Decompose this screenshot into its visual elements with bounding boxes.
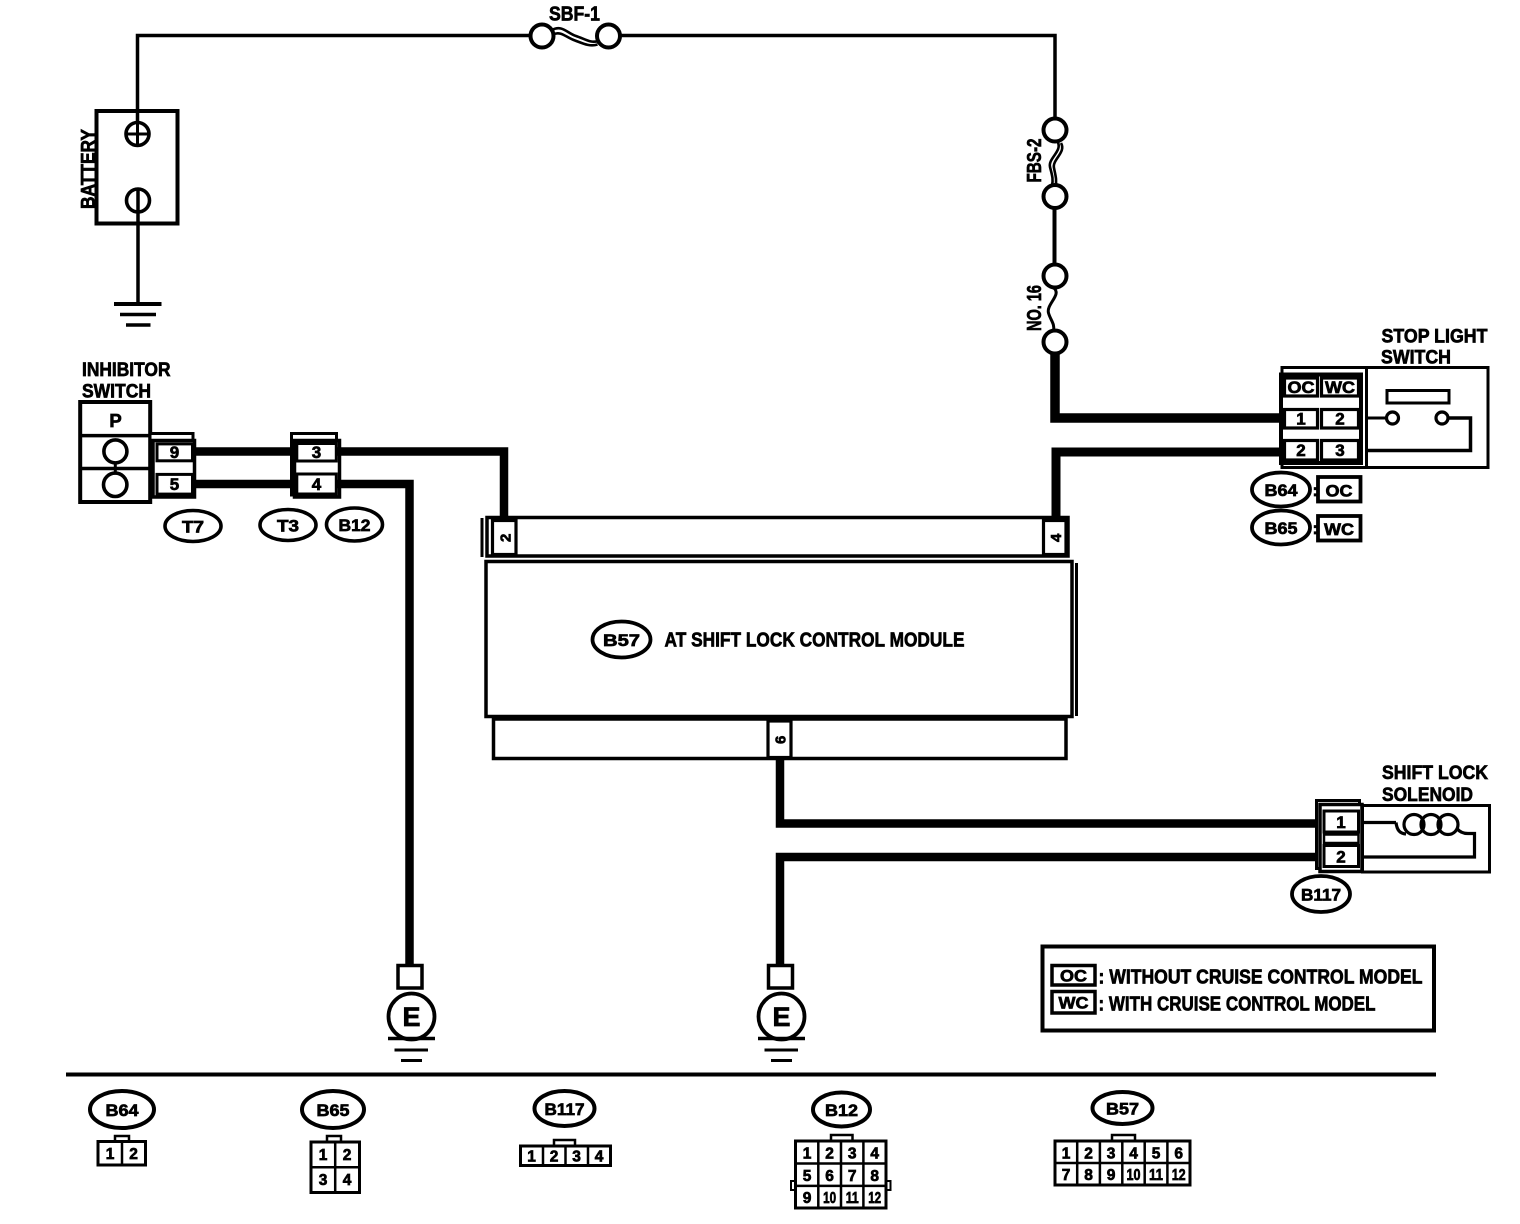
svg-text:T3: T3 xyxy=(277,517,299,536)
svg-text:5: 5 xyxy=(1152,1146,1161,1163)
inhibitor switch xyxy=(80,402,150,502)
module B57 main box xyxy=(486,562,1077,717)
connector label B65 : WC xyxy=(1252,511,1361,545)
svg-text:10: 10 xyxy=(823,1190,836,1207)
svg-text:4: 4 xyxy=(343,1172,352,1189)
svg-text:3: 3 xyxy=(319,1172,328,1189)
svg-text:OC: OC xyxy=(1288,378,1315,397)
svg-text:E: E xyxy=(772,1002,790,1032)
connector pinout B64 xyxy=(90,1091,154,1165)
svg-text:B65: B65 xyxy=(317,1101,350,1120)
svg-text:12: 12 xyxy=(1172,1167,1186,1184)
wire battery minus to ground xyxy=(136,189,140,304)
connector pinout B57 xyxy=(1055,1092,1190,1185)
wire module pin 6 to solenoid pin 1 xyxy=(780,758,1320,824)
svg-text:P: P xyxy=(109,410,121,431)
svg-text:WC: WC xyxy=(1325,378,1355,397)
fuse NO. 16 xyxy=(1024,265,1067,354)
svg-text:: WITH CRUISE CONTROL MODEL: : WITH CRUISE CONTROL MODEL xyxy=(1099,994,1376,1016)
svg-text:6: 6 xyxy=(1174,1146,1183,1163)
svg-text:9: 9 xyxy=(1107,1167,1116,1184)
ground E (inhibitor branch) xyxy=(388,966,435,1061)
fuse SBF-1 xyxy=(531,4,621,48)
svg-text:BATTERY: BATTERY xyxy=(79,129,100,209)
connector label B64 : OC xyxy=(1252,473,1361,507)
svg-text:SWITCH: SWITCH xyxy=(82,381,151,402)
svg-text:7: 7 xyxy=(1062,1167,1071,1184)
svg-text:STOP LIGHT: STOP LIGHT xyxy=(1382,327,1488,348)
svg-text:6: 6 xyxy=(773,736,790,744)
svg-text:E: E xyxy=(402,1002,420,1032)
svg-text:8: 8 xyxy=(1084,1167,1093,1184)
svg-text:B64: B64 xyxy=(1265,481,1299,500)
svg-text:3: 3 xyxy=(312,443,321,462)
svg-text:SWITCH: SWITCH xyxy=(1381,348,1451,369)
wire pin 4 down to ground xyxy=(336,484,410,966)
svg-text:1: 1 xyxy=(803,1146,812,1163)
svg-text:2: 2 xyxy=(1296,441,1305,460)
svg-text:WC: WC xyxy=(1059,994,1089,1013)
wire pin 5 to pin 4 xyxy=(193,480,298,489)
inhibitor switch label xyxy=(82,360,171,402)
wire NO.16 to stop light switch pin 1 xyxy=(1055,352,1282,418)
svg-text:2: 2 xyxy=(343,1147,352,1164)
svg-text:NO. 16: NO. 16 xyxy=(1024,285,1046,331)
svg-text:11: 11 xyxy=(846,1190,859,1207)
svg-text:OC: OC xyxy=(1060,967,1087,986)
svg-text:1: 1 xyxy=(1336,813,1345,832)
wire battery to SBF-1 xyxy=(138,36,531,124)
svg-text:11: 11 xyxy=(1149,1167,1163,1184)
connector T3/B12 (3/4) xyxy=(292,434,340,498)
svg-text:T7: T7 xyxy=(182,518,204,537)
shift lock solenoid xyxy=(1363,806,1490,873)
svg-text:INHIBITOR: INHIBITOR xyxy=(82,360,171,381)
svg-text:1: 1 xyxy=(1062,1146,1071,1163)
svg-text:1: 1 xyxy=(106,1146,115,1163)
svg-text:AT SHIFT LOCK CONTROL MODULE: AT SHIFT LOCK CONTROL MODULE xyxy=(665,629,965,652)
svg-text:3: 3 xyxy=(572,1149,581,1166)
fuse FBS-2 xyxy=(1024,119,1067,209)
svg-text:4: 4 xyxy=(1129,1146,1138,1163)
svg-text:2: 2 xyxy=(550,1149,559,1166)
connector pinout B65 xyxy=(302,1091,364,1193)
svg-text:12: 12 xyxy=(868,1190,881,1207)
stop light switch xyxy=(1282,368,1488,468)
svg-text:B117: B117 xyxy=(1301,886,1341,905)
svg-text:FBS-2: FBS-2 xyxy=(1024,139,1046,183)
svg-text:2: 2 xyxy=(129,1146,138,1163)
svg-text:4: 4 xyxy=(1048,533,1065,542)
connector pinout B12 xyxy=(791,1093,891,1209)
svg-text:B12: B12 xyxy=(825,1101,858,1120)
connector label T3 xyxy=(260,510,316,541)
svg-text:SHIFT LOCK: SHIFT LOCK xyxy=(1382,763,1488,784)
svg-text:B65: B65 xyxy=(1265,519,1298,538)
svg-text:1: 1 xyxy=(527,1149,536,1166)
module B57 top strip xyxy=(482,518,1068,558)
module B57 bottom strip xyxy=(494,719,1067,759)
svg-text:3: 3 xyxy=(848,1146,857,1163)
svg-text:OC: OC xyxy=(1326,482,1353,501)
svg-text:4: 4 xyxy=(312,475,322,494)
svg-text:4: 4 xyxy=(870,1146,879,1163)
svg-text:B12: B12 xyxy=(339,516,371,535)
shift lock solenoid connector (1/2) xyxy=(1317,801,1363,872)
svg-text:3: 3 xyxy=(1107,1146,1116,1163)
svg-text:10: 10 xyxy=(1127,1167,1141,1184)
wire FBS-2 to NO.16 xyxy=(1053,208,1057,265)
svg-text:: WITHOUT CRUISE CONTROL MODEL: : WITHOUT CRUISE CONTROL MODEL xyxy=(1099,967,1423,989)
svg-text:B57: B57 xyxy=(603,631,640,650)
svg-text:9: 9 xyxy=(803,1190,812,1207)
wire SBF-1 to FBS-2 xyxy=(620,36,1055,119)
svg-text:1: 1 xyxy=(319,1147,328,1164)
wire stop light switch pin 2 to module pin 4 xyxy=(1056,452,1282,518)
svg-text:3: 3 xyxy=(1335,441,1344,460)
svg-text:2: 2 xyxy=(825,1146,834,1163)
connector label B12 xyxy=(327,508,383,541)
svg-text:WC: WC xyxy=(1324,520,1354,539)
svg-text:5: 5 xyxy=(170,475,179,494)
connector pinout B117 xyxy=(521,1091,611,1166)
connector label T7 xyxy=(165,511,221,542)
connector label B117 xyxy=(1292,876,1350,912)
ground battery xyxy=(114,304,162,325)
connector T7 (9/5) xyxy=(150,434,195,498)
wire pin 9 to pin 3 xyxy=(193,447,298,456)
svg-text:2: 2 xyxy=(1336,848,1345,867)
stop light switch connector table xyxy=(1281,375,1361,464)
legend box xyxy=(1043,947,1435,1031)
svg-text:B64: B64 xyxy=(106,1101,140,1120)
svg-text:2: 2 xyxy=(1084,1146,1093,1163)
svg-text:B57: B57 xyxy=(1106,1100,1139,1119)
wire pin 3 to module pin 2 xyxy=(336,452,504,519)
svg-text:5: 5 xyxy=(803,1168,812,1185)
svg-text:SOLENOID: SOLENOID xyxy=(1382,785,1473,806)
svg-text:2: 2 xyxy=(1335,410,1344,429)
svg-text:1: 1 xyxy=(1296,410,1305,429)
svg-text:4: 4 xyxy=(595,1149,604,1166)
svg-text:B117: B117 xyxy=(545,1100,585,1119)
svg-text:9: 9 xyxy=(170,443,179,462)
svg-text:7: 7 xyxy=(848,1168,857,1185)
wire solenoid pin 2 to ground xyxy=(780,857,1320,966)
ground E (solenoid branch) xyxy=(758,966,805,1061)
svg-text:8: 8 xyxy=(870,1168,879,1185)
separator line xyxy=(66,1073,1436,1077)
stop light switch label xyxy=(1381,327,1488,369)
battery xyxy=(79,111,178,224)
svg-text:SBF-1: SBF-1 xyxy=(549,4,600,26)
svg-text:2: 2 xyxy=(498,534,515,542)
shift lock solenoid label xyxy=(1382,763,1488,806)
svg-text:6: 6 xyxy=(825,1168,834,1185)
